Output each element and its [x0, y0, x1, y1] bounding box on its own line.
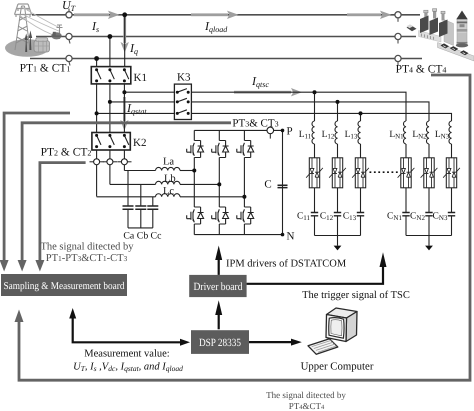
capacitor CN1	[402, 213, 409, 216]
inverter leg 1 wires	[193, 130, 195, 234]
svg-text:IPM drivers of DSTATCOM: IPM drivers of DSTATCOM	[226, 258, 347, 269]
capacitor Cc	[147, 197, 158, 228]
wire drop from line B to K1	[109, 37, 111, 67]
wire K1 to K2 leg C	[96, 84, 98, 133]
black arrow DSP to Driver board	[215, 300, 222, 329]
thyristor valve branch2	[329, 158, 346, 188]
current arrow I_q (vertical)	[121, 16, 129, 53]
IGBT Q3 top leg2	[212, 137, 229, 161]
svg-text:The trigger signal of TSC: The trigger signal of TSC	[302, 290, 410, 301]
CT/PT measuring point PT2&CT2 phase C	[117, 159, 131, 165]
thyristor valve branch3	[352, 158, 369, 188]
capacitor Ca	[123, 171, 134, 228]
breaker K2	[92, 133, 130, 151]
box Driver board	[189, 275, 246, 297]
IGBT Q5 top leg3	[237, 137, 254, 161]
thyristor valve branch6	[443, 158, 460, 188]
wire DC link vertical	[282, 130, 284, 234]
IGBT Q1 top leg1	[187, 137, 204, 161]
svg-text:L12: L12	[322, 130, 335, 141]
svg-text:PT3& CT3: PT3& CT3	[232, 118, 278, 130]
CT/PT measuring point PT3&CT3 on P rail	[267, 127, 274, 139]
CT/PT measuring point PT1&CT1 on line C	[66, 55, 72, 65]
wire DC negative rail N	[194, 234, 282, 236]
svg-text:C12: C12	[320, 212, 334, 223]
wire K3 to TSC row1	[191, 92, 406, 121]
CT/PT measuring point PT1&CT1 on line B	[66, 33, 72, 43]
wire phase A to inductor La	[124, 170, 155, 172]
capacitor CN2	[425, 213, 432, 216]
signal wire from PT4&CT4 loop	[19, 75, 470, 380]
CT/PT measuring point PT4&CT4 on line A	[395, 12, 401, 22]
wire tap to K3 row3	[97, 112, 175, 114]
svg-text:K3: K3	[177, 72, 191, 84]
ground arrow group2	[425, 246, 433, 251]
signal arrowhead into sampling board (1)	[0, 260, 9, 272]
TSC branch 2 wire	[337, 102, 339, 236]
svg-text:PT1 & CT1: PT1 & CT1	[20, 63, 71, 75]
black arrow trigger signal to TSC	[247, 252, 387, 283]
TSC branch 6 wire	[451, 144, 453, 236]
svg-text:UT, Is ,Vdc, Iqstat, and Iqloa: UT, Is ,Vdc, Iqstat, and Iqload	[73, 362, 183, 374]
wire K3 to TSC row2	[191, 102, 429, 121]
capacitor C13	[357, 213, 364, 216]
upper computer clipart	[308, 308, 357, 354]
capacitor C12	[334, 213, 341, 216]
wire La to leg1 midpoint	[180, 170, 194, 172]
wire K1 to K2 leg B	[109, 84, 111, 133]
svg-text:CN1: CN1	[387, 212, 402, 223]
inductor Lc	[156, 194, 181, 197]
CT/PT measuring point PT2&CT2 phase A	[90, 159, 104, 165]
wire Lc to leg3 midpoint	[180, 196, 244, 198]
wire filter capacitor common	[128, 227, 153, 229]
signal wire from PT3&CT3 to sampling board	[22, 123, 231, 260]
ground arrow group1	[334, 246, 342, 251]
wire phase C to inductor Lc	[97, 196, 156, 198]
svg-text:Sampling & Measurement board: Sampling & Measurement board	[4, 281, 126, 292]
junction dot line A	[122, 12, 127, 17]
capacitor CN3	[448, 213, 455, 216]
black arrow measurement value (double head)	[69, 308, 190, 346]
inductor LN1	[403, 121, 406, 144]
box DSP 28335	[191, 330, 249, 354]
svg-text:Lc: Lc	[163, 186, 174, 197]
box Sampling & Measurement board	[1, 274, 127, 296]
wire tap to K3 row1	[124, 91, 174, 93]
IGBT Q4 bottom leg2	[212, 204, 229, 228]
svg-text:The signal ditected by: The signal ditected by	[40, 242, 134, 253]
wire bus line C (bottom)	[30, 58, 422, 60]
current arrow toward load on line A	[347, 11, 392, 19]
load clipart (factory)	[407, 9, 474, 61]
wire Lb to leg2 midpoint	[180, 183, 219, 185]
CT/PT measuring point PT1&CT1 on line A	[66, 9, 72, 18]
svg-text:C13: C13	[343, 212, 357, 223]
inverter leg 3 wires	[243, 130, 245, 234]
junction dot K3 tap B	[108, 100, 112, 104]
current arrow I_qstat (vertical)	[120, 97, 128, 131]
TSC branch 3 wire	[360, 113, 362, 235]
IGBT Q2 bottom leg1	[187, 204, 204, 228]
wire bus line B (middle)	[36, 36, 416, 38]
wire K2 to phase C bend	[96, 150, 98, 197]
node P	[281, 129, 285, 133]
svg-text:The signal ditected by: The signal ditected by	[266, 390, 346, 400]
junction dot leg3 midpoint	[242, 195, 246, 199]
wire phase B to inductor Lb	[110, 183, 156, 185]
junction dot leg1 midpoint	[192, 169, 196, 173]
contactor K3	[174, 84, 191, 119]
junction dot line C	[94, 56, 99, 61]
svg-text:LN2: LN2	[412, 130, 427, 141]
inductor L13	[358, 121, 361, 144]
signal arrowhead into sampling board (2)	[18, 260, 27, 272]
thyristor valve branch4	[398, 158, 415, 188]
inductor La	[156, 167, 181, 170]
svg-text:LN1: LN1	[389, 130, 404, 141]
signal arrowhead into sampling board (3)	[35, 260, 44, 272]
wire K2 to phase B bend	[109, 150, 111, 184]
wire drop from line A to K1	[124, 15, 126, 67]
svg-text:C: C	[264, 179, 271, 191]
inductor LN2	[426, 121, 429, 144]
svg-text:DSP 28335: DSP 28335	[199, 337, 241, 349]
inductor L12	[335, 121, 338, 144]
wire K1 to K2 leg A	[123, 84, 125, 133]
wire bus line A (top)	[32, 14, 420, 16]
junction dot branch1	[313, 90, 317, 94]
TSC branch 1 wire	[314, 92, 316, 235]
inductor Lb	[156, 181, 181, 184]
junction dot line B	[108, 34, 113, 39]
dotted separator between TSC groups	[370, 171, 400, 173]
TSC branch 4 wire	[405, 144, 407, 236]
wire DC positive rail P	[194, 129, 282, 131]
inductor LN3	[449, 121, 452, 144]
signal wire from PT2&CT2 to sampling board	[40, 163, 86, 260]
svg-text:PT2 & CT2: PT2 & CT2	[41, 147, 92, 159]
svg-text:Cc: Cc	[151, 231, 163, 242]
wire drop from line C to K1	[96, 59, 98, 67]
power grid clipart (transmission tower)	[5, 4, 63, 57]
wire K3 to TSC row3	[191, 113, 451, 121]
signal arrowhead into sampling board bottom	[15, 310, 24, 323]
thyristor valve branch1	[306, 158, 323, 188]
wire K2 to phase A bend	[123, 150, 125, 171]
svg-text:Ca: Ca	[123, 231, 135, 242]
svg-text:K1: K1	[134, 72, 147, 84]
inverter leg 2 wires	[218, 130, 220, 234]
svg-text:Upper Computer: Upper Computer	[301, 360, 374, 372]
IGBT Q6 bottom leg3	[237, 204, 254, 228]
wire TSC group1 common	[315, 236, 361, 246]
CT/PT measuring point PT2&CT2 phase B	[103, 159, 117, 165]
svg-text:PT1-PT3&CT1-CT3: PT1-PT3&CT1-CT3	[46, 253, 128, 264]
svg-text:Measurement value:: Measurement value:	[84, 349, 170, 360]
CT/PT measuring point PT4&CT4 on line B	[395, 33, 401, 43]
breaker K1	[91, 67, 131, 84]
signal wire from PT1&CT1 to sampling board	[4, 113, 70, 260]
svg-text:La: La	[163, 157, 174, 168]
svg-text:PT4&CT4: PT4&CT4	[289, 401, 325, 411]
wire TSC group2 common	[406, 236, 452, 246]
svg-text:C11: C11	[297, 212, 311, 223]
svg-text:CN3: CN3	[433, 212, 448, 223]
current arrow U_T direction on line A	[74, 11, 120, 19]
svg-text:K2: K2	[133, 137, 146, 149]
capacitor C (DC link)	[278, 185, 288, 187]
svg-text:Cb: Cb	[137, 231, 149, 242]
junction dot K3 tap C	[95, 111, 99, 115]
current arrow I_qload on line A	[191, 11, 239, 19]
junction dot K3 tap A	[122, 90, 126, 94]
svg-text:L13: L13	[345, 130, 358, 141]
node N	[281, 233, 285, 237]
svg-text:Lb: Lb	[164, 174, 176, 185]
svg-text:LN3: LN3	[435, 130, 450, 141]
black arrow DSP to upper computer	[249, 339, 302, 346]
junction dot branch3	[359, 111, 363, 115]
capacitor Cb	[135, 184, 146, 228]
junction dot branch2	[336, 100, 340, 104]
TSC branch 5 wire	[428, 144, 430, 236]
wire tap to K3 row2	[110, 101, 174, 103]
svg-text:L11: L11	[299, 130, 312, 141]
junction dot leg2 midpoint	[217, 182, 221, 186]
svg-text:P: P	[287, 126, 293, 138]
CT/PT measuring point PT4&CT4 on line C	[395, 55, 401, 65]
current arrow I_qtsc (horizontal)	[234, 88, 302, 96]
svg-text:Driver board: Driver board	[194, 281, 243, 293]
black arrow Driver board to IPM	[215, 246, 222, 275]
svg-text:N: N	[287, 231, 295, 243]
thyristor valve branch5	[421, 158, 438, 188]
svg-text:CN2: CN2	[410, 212, 425, 223]
inductor L11	[312, 121, 315, 144]
capacitor C11	[311, 213, 318, 216]
